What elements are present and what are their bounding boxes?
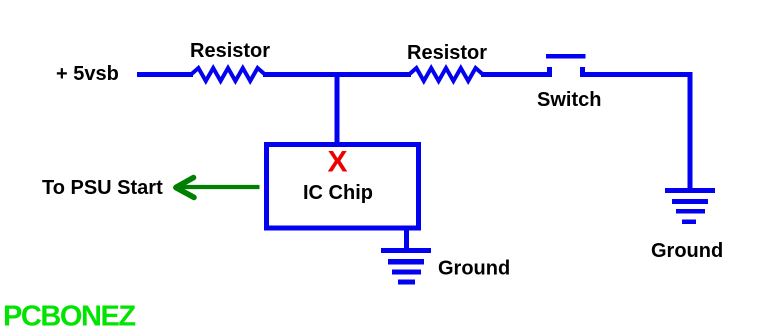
ground GND2 (665, 188, 715, 224)
wire from R2 to switch S1 (481, 72, 552, 77)
svg-text:Ground: Ground (438, 258, 510, 280)
ground GND1 (381, 248, 431, 285)
resistor R1 (191, 68, 265, 81)
svg-text:PCBONEZ: PCBONEZ (3, 301, 135, 332)
wire from IC chip pin down to ground GND1 (404, 228, 409, 250)
wire junction node A down to IC chip (335, 74, 340, 144)
switch S1 (normally-open pushbutton) (546, 54, 586, 77)
wire from switch to right corner (580, 72, 693, 77)
svg-text:IC Chip: IC Chip (303, 182, 373, 204)
svg-text:Ground: Ground (651, 240, 723, 262)
resistor R2 (409, 68, 483, 81)
arrow to PSU Start (from IC chip, pointing left) (176, 178, 260, 198)
wire right vertical down to ground GND2 (688, 72, 693, 190)
IC chip U1 (body) (267, 145, 419, 229)
svg-text:Resistor: Resistor (190, 40, 270, 62)
svg-text:Resistor: Resistor (407, 42, 487, 64)
wire from R1 to resistor R2 (junction node A at x=337) (263, 72, 411, 77)
svg-text:To PSU Start: To PSU Start (42, 177, 163, 199)
svg-text:Switch: Switch (537, 89, 601, 111)
svg-text:X: X (327, 146, 347, 179)
svg-text:+ 5vsb: + 5vsb (56, 63, 119, 85)
wire from +5vsb to resistor R1 (137, 72, 193, 77)
